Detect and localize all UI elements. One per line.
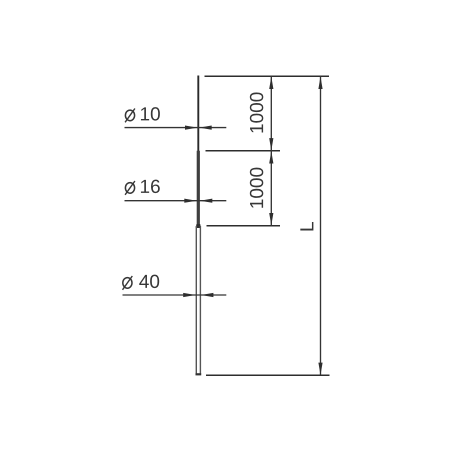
rod lower section right outline (diameter 40) (199, 226, 201, 375)
rod bottom cap (196, 373, 202, 375)
dimension line 1000 upper (270, 76, 272, 151)
dimension line 1000 lower (270, 151, 272, 226)
arrow down at 2000 mark (lower dim) (269, 213, 273, 226)
arrow up at top of upper 1000 dimension (269, 77, 273, 90)
leader line diameter 16 (125, 200, 227, 202)
value 1000 lower (rotated) (250, 168, 263, 208)
rod lower section left outline (diameter 40) (195, 226, 197, 375)
extension line bottom (206, 374, 330, 376)
value 1000 upper (rotated) (250, 92, 263, 132)
leader arrow right-pointing at rod left edge (d40) (183, 293, 196, 297)
leader arrow left-pointing at rod right edge (d10) (199, 126, 212, 130)
extension line at 1000 mark (206, 150, 281, 152)
dimension line L (320, 76, 322, 375)
leader line diameter 40 (123, 294, 227, 296)
extension line at 2000 mark (207, 225, 281, 227)
arrow down at 1000 mark (upper dim) (269, 138, 273, 151)
leader arrow right-pointing at rod left edge (d16) (184, 199, 197, 203)
label diameter 40 (123, 275, 160, 290)
arrow up at 1000 mark (lower dim) (269, 151, 273, 164)
arrow down at bottom of L dimension (318, 363, 322, 376)
arrow up at top of L dimension (318, 77, 322, 90)
leader arrow left-pointing at rod right edge (d16) (200, 199, 213, 203)
extension line top (205, 75, 330, 77)
label diameter 16 (125, 180, 160, 195)
leader arrow right-pointing at rod left edge (d10) (185, 126, 198, 130)
leader arrow left-pointing at rod right edge (d40) (201, 293, 214, 297)
rod upper section (diameter 10) (197, 76, 199, 152)
label L (rotated) (300, 222, 313, 230)
rod middle section (diameter 16) (197, 151, 200, 225)
label diameter 10 (125, 107, 160, 122)
rod taper joint 16 to 40 (196, 224, 201, 228)
leader line diameter 10 (125, 127, 227, 129)
